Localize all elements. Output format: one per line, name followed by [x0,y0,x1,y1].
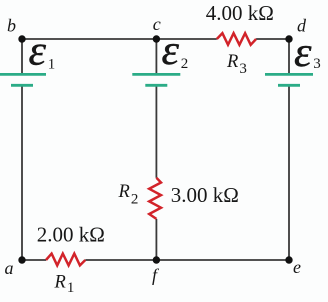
svg-text:4.00 kΩ: 4.00 kΩ [206,1,274,25]
battery E1 long plate [0,73,46,76]
battery E3 long plate [265,73,313,76]
wire bottom right (R1 to f to e) [85,259,289,261]
svg-text:2: 2 [181,56,189,72]
wire top right after R3 to d [256,38,289,40]
wire bottom left (a to R1) [22,259,46,261]
wire right branch lower (battery E3 bottom plate to e) [288,86,290,260]
svg-text:b: b [7,16,16,36]
node f dot [153,256,160,263]
svg-text:3.00 kΩ: 3.00 kΩ [171,183,239,207]
wire middle branch lower (R2 bottom to f) [155,219,157,260]
svg-text:ε: ε [294,30,312,76]
battery E1 short plate [11,84,33,87]
svg-text:R3: R3 [226,52,247,77]
svg-text:1: 1 [48,56,56,72]
svg-text:2.00 kΩ: 2.00 kΩ [37,223,105,247]
svg-text:R2: R2 [118,182,139,208]
resistor R3 zigzag (top, horizontal) [217,33,256,45]
battery E2 short plate [145,84,167,87]
wire left branch upper (b to battery E1 top plate) [21,39,23,73]
node c dot [153,35,160,42]
node d dot [285,35,292,42]
svg-text:a: a [5,258,14,278]
svg-text:f: f [152,265,160,285]
svg-text:e: e [293,257,301,277]
node e dot [285,256,292,263]
wire middle branch upper (c to battery E2 top plate) [155,39,157,73]
svg-text:ε: ε [162,28,180,74]
battery E3 short plate [278,84,300,87]
battery E2 long plate [132,73,180,76]
resistor R2 zigzag (middle, vertical) [149,178,161,219]
wire middle branch mid (battery E2 bottom to R2 top) [155,86,157,177]
svg-text:c: c [153,14,161,34]
wire right branch upper (d to battery E3 top plate) [288,39,290,73]
resistor R1 zigzag (bottom, horizontal) [46,254,85,266]
wire top left b-c [22,39,289,260]
node b dot [18,35,25,42]
node a dot [18,256,25,263]
svg-text:3: 3 [313,56,321,72]
wire left branch lower (battery E1 bottom plate to a) [21,86,23,260]
svg-text:R1: R1 [54,273,75,297]
svg-text:ε: ε [29,29,47,75]
